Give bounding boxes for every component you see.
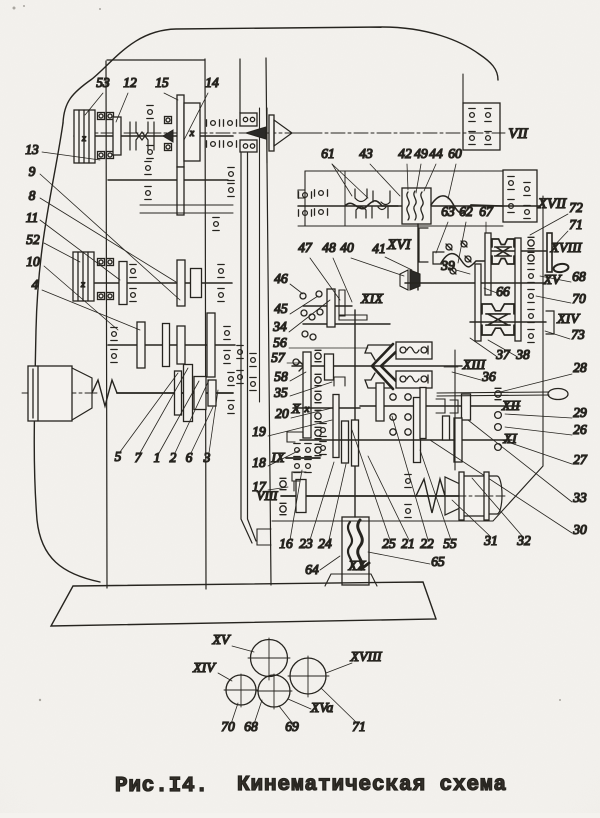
label IX: [270, 451, 285, 466]
label XIX: [360, 292, 383, 307]
gear m1: [175, 371, 182, 415]
label 29: [505, 405, 587, 420]
label 9: [29, 164, 180, 300]
label 5: [115, 373, 178, 464]
ball grid: [390, 394, 411, 435]
label XIV: [556, 312, 580, 327]
claw clutch 12-15: [130, 122, 154, 150]
label c69: [279, 706, 299, 734]
quill top line: [239, 59, 241, 113]
bearing IV left: [111, 328, 117, 363]
column left profile: [34, 123, 100, 582]
label VIII: [257, 488, 279, 503]
drill bar: [269, 115, 274, 151]
shaft IV: [108, 344, 235, 346]
gear x7: [462, 394, 471, 420]
bearing VIII l: [280, 478, 286, 514]
column inner edge: [205, 59, 206, 589]
gear x5: [414, 398, 421, 463]
label 58: [274, 369, 306, 384]
label 56: [273, 335, 368, 350]
bearing IV right: [224, 327, 230, 364]
plate 53: [74, 110, 95, 163]
label 8: [29, 188, 176, 282]
label 67: [479, 204, 494, 238]
ball XVIIIa: [461, 241, 467, 247]
label 65: [368, 552, 445, 569]
frame top: [305, 170, 503, 172]
shaft XV: [405, 282, 545, 284]
label 12t: [116, 75, 137, 122]
label 30: [430, 440, 587, 537]
gear 10a: [119, 262, 127, 305]
gear teeth XIV: [482, 304, 514, 335]
bearing II left: [145, 162, 151, 200]
label 46: [274, 271, 303, 294]
bearing col left: [315, 350, 321, 455]
friction box bot: [396, 371, 432, 388]
label cXVa: [288, 699, 333, 716]
shaft III: [95, 282, 232, 284]
label 36: [452, 369, 496, 384]
foot of column XX: [325, 574, 377, 586]
label X: [291, 402, 310, 417]
shaft VII axis: [78, 132, 505, 134]
gear 15: [184, 103, 200, 161]
plate 67: [485, 233, 491, 295]
squiggle 64: [348, 522, 352, 569]
gear g3: [177, 326, 185, 364]
shaft XII: [360, 405, 520, 407]
label 14t: [184, 75, 219, 140]
label c71: [321, 688, 366, 734]
bearing VIII r: [405, 475, 411, 518]
right boundary: [272, 196, 543, 521]
motor body: [28, 366, 72, 421]
bearing block 53 bot: [98, 152, 114, 159]
label 26: [505, 422, 587, 437]
cross XIII: [299, 361, 309, 371]
gear x4: [376, 383, 384, 421]
shaft XIII: [292, 365, 462, 367]
label 4: [32, 277, 140, 330]
shaft XIX h1: [303, 305, 352, 307]
label 68: [540, 269, 586, 284]
label 48: [322, 240, 352, 302]
chuck box 1: [240, 113, 257, 126]
gear XIX: [327, 289, 335, 327]
gear 15 flange: [177, 95, 184, 167]
gear g4: [207, 313, 215, 377]
drill point: [274, 120, 310, 146]
label 42: [398, 146, 412, 190]
label XII: [501, 399, 521, 414]
label c70: [221, 703, 238, 734]
label 60: [448, 146, 462, 199]
bearing wall: [528, 237, 534, 342]
bearing III right: [218, 265, 224, 302]
shaft I top: [74, 135, 233, 137]
crank XVIII: [547, 233, 569, 273]
rack lines: [140, 205, 233, 213]
right head inner edge: [462, 74, 464, 103]
shaft IX: [286, 457, 320, 459]
balls 46: [300, 291, 323, 340]
label 57: [271, 350, 302, 365]
label 28: [500, 360, 587, 392]
gear x1: [333, 395, 339, 458]
label cXVIII: [326, 650, 383, 673]
bracket XIV: [546, 311, 554, 334]
label 44: [424, 146, 443, 191]
bearing V left: [228, 373, 234, 414]
spring 61: [345, 201, 398, 209]
gear x2: [342, 421, 349, 463]
label VII: [508, 126, 528, 142]
label 64: [305, 556, 340, 577]
label 11: [26, 210, 120, 280]
label 49: [414, 146, 428, 193]
gear m4: [208, 380, 216, 406]
label 3: [203, 390, 218, 465]
vert conn: [454, 350, 456, 470]
spring VIII: [416, 479, 445, 513]
bracket XVI b: [433, 252, 444, 264]
shaft X: [293, 407, 360, 409]
label XX: [347, 559, 366, 574]
gear x3: [352, 420, 359, 466]
friction box top: [396, 342, 432, 359]
claw stubs upper: [355, 189, 390, 205]
label XI: [502, 432, 518, 447]
bearing IX: [294, 444, 311, 473]
label 27: [502, 440, 588, 467]
gear g2: [163, 324, 170, 367]
bevel corner XIX: [339, 290, 367, 320]
long bar left: [475, 264, 481, 341]
label 13: [25, 142, 100, 160]
label c68: [244, 700, 262, 734]
frame box right: [344, 171, 346, 226]
bearing block 53 top: [98, 113, 114, 120]
label XV: [542, 273, 562, 288]
label 62: [458, 204, 473, 263]
quill tube left: [241, 153, 252, 543]
arrow into 15: [163, 130, 173, 142]
bearing box VII: [463, 103, 500, 150]
label 66: [484, 284, 510, 299]
gear teeth XVIII: [492, 239, 514, 264]
gear 12: [113, 117, 121, 155]
label cXIV: [192, 661, 232, 681]
base plate: [51, 582, 436, 626]
label 22: [392, 416, 434, 551]
label 19: [252, 420, 332, 439]
bearing 52 top: [98, 259, 114, 266]
label 43: [359, 146, 400, 196]
cap 32: [489, 476, 502, 514]
bracket IX: [287, 432, 303, 442]
bearing III mid: [130, 265, 136, 302]
gear xi4: [454, 418, 462, 462]
ball 62b: [450, 268, 456, 274]
box XX: [342, 517, 369, 585]
bearing 15 top: [165, 117, 172, 151]
shaft V motor: [117, 392, 233, 394]
machine head outline: [63, 27, 498, 123]
bearing under: [213, 218, 219, 231]
cone axis: [412, 495, 505, 497]
circle XVa: [257, 674, 292, 709]
motor axis: [22, 392, 100, 394]
label 32: [472, 478, 531, 548]
label 21: [368, 456, 415, 551]
label 47: [298, 240, 340, 300]
spindle sleeve lines: [260, 108, 268, 402]
bracket VIII: [292, 472, 306, 491]
label XVI: [386, 237, 411, 253]
spring 62: [441, 254, 486, 267]
lever rod 28: [437, 389, 568, 400]
plate 52: [73, 252, 94, 301]
vertical shaft XIX: [354, 310, 356, 517]
label XIII: [444, 358, 487, 373]
label XVIII: [549, 241, 582, 256]
label 6: [186, 407, 213, 465]
bearing mid bot: [147, 146, 153, 159]
label 25: [352, 430, 396, 551]
label 33: [468, 420, 587, 505]
bearing XVII left: [299, 190, 328, 216]
bearing spindle low: [237, 346, 256, 391]
label 24: [318, 464, 346, 551]
frame notch: [298, 190, 305, 198]
quill bearing row bot: [207, 141, 237, 147]
label 63: [436, 204, 455, 253]
label 40: [340, 240, 404, 276]
spring 60: [431, 196, 503, 213]
quill tube right: [248, 153, 257, 541]
label 70r: [536, 291, 586, 306]
sleeve plate: [177, 167, 184, 215]
cyl 31: [459, 472, 489, 520]
step notch: [257, 529, 271, 545]
balls XI: [495, 444, 502, 451]
gear XIII b: [325, 354, 334, 380]
column front edge: [106, 61, 107, 588]
quill bearing row top: [207, 120, 237, 126]
chuck box 2: [240, 140, 257, 152]
gear m2: [184, 365, 193, 422]
label 15t: [155, 75, 178, 100]
label 52: [26, 232, 80, 262]
label 18: [252, 450, 300, 470]
bearing mid top: [147, 106, 153, 119]
label 45: [274, 296, 318, 316]
label 31: [452, 500, 498, 548]
gear VIII: [296, 480, 306, 513]
claw stubs lower: [356, 207, 388, 218]
frame left: [304, 171, 306, 226]
ball XVIIIb: [465, 256, 471, 262]
claw box 42: [402, 188, 431, 224]
body left edge: [266, 58, 271, 585]
drill taper small: [246, 127, 266, 139]
label 16: [279, 470, 302, 551]
long bar right: [515, 238, 521, 341]
label 71: [552, 217, 583, 248]
label cXV: [211, 633, 254, 652]
gear XIII a: [303, 352, 311, 438]
shaft XVIII: [486, 250, 546, 252]
label 35: [273, 382, 332, 400]
chevron big: [365, 344, 401, 389]
label 38: [488, 340, 530, 362]
motor cone: [72, 368, 92, 420]
circle XV: [248, 638, 290, 680]
coupling spring 4: [92, 380, 117, 406]
label 53t: [85, 75, 110, 115]
caption: [115, 774, 507, 798]
label 2: [170, 380, 209, 465]
shaft II: [108, 179, 228, 181]
label 41: [372, 241, 412, 270]
label XVII: [537, 196, 567, 212]
gear m3: [194, 377, 206, 410]
cone 31: [445, 477, 462, 515]
gear pair 8: [177, 260, 202, 306]
bracket XVI a: [419, 228, 428, 262]
label 34: [272, 300, 330, 334]
bearing col 2: [320, 424, 326, 455]
shaft XVII: [298, 205, 540, 207]
bearing box XVII: [503, 170, 537, 222]
balls XII: [495, 388, 502, 430]
label 10: [26, 254, 118, 330]
bearing II right: [228, 168, 234, 197]
fork bracket: [334, 377, 345, 386]
shaft XVI: [417, 224, 419, 290]
head bottom edge: [107, 59, 205, 61]
label 1: [154, 381, 199, 465]
gear xi3: [443, 416, 450, 440]
label 37: [470, 338, 511, 362]
label 20: [275, 406, 332, 421]
coupling XII: [436, 399, 458, 413]
label 7: [135, 368, 188, 465]
label 73: [545, 327, 585, 342]
gear x6: [420, 388, 426, 439]
shaft XI: [300, 439, 512, 441]
label 39: [440, 258, 470, 274]
label 17: [252, 479, 288, 494]
shaft VIII: [281, 495, 460, 497]
frame bottom: [298, 225, 503, 227]
gear g1: [137, 322, 145, 368]
label 55: [420, 450, 457, 551]
label 23: [299, 462, 334, 551]
shaft XIV: [470, 321, 546, 323]
ball 62a: [446, 244, 452, 250]
shaft XIX h2: [303, 323, 390, 325]
bearing 52 bot: [98, 293, 114, 300]
bevel XVI: [400, 270, 420, 290]
label 61: [321, 146, 368, 198]
circle XVIII: [288, 656, 329, 697]
circle XIV: [224, 674, 258, 707]
label 72: [530, 200, 583, 235]
squiggle 65: [358, 520, 369, 570]
